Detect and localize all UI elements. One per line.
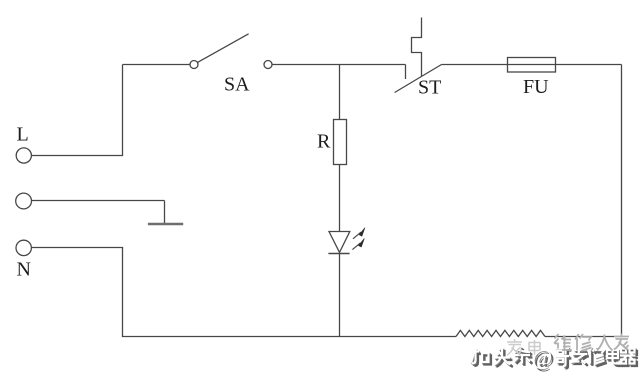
wire L vertical riser: [122, 65, 124, 156]
wire R to LED: [339, 165, 341, 232]
svg-text:N: N: [17, 259, 31, 281]
svg-text:SA: SA: [224, 74, 250, 96]
ground bar: [148, 223, 183, 225]
watermark gray line: [554, 334, 629, 352]
wire earth horizontal: [32, 200, 165, 202]
wire LED to bottom: [339, 254, 341, 337]
terminal N: [16, 240, 31, 255]
watermark dark-shadow layer: [473, 349, 638, 369]
heater element zigzag: [456, 330, 545, 336]
svg-text:ST: ST: [418, 77, 441, 99]
wire earth drop: [164, 201, 166, 224]
LED arrow 2: [352, 239, 364, 250]
svg-text:R: R: [317, 131, 331, 153]
ST blade: [395, 65, 442, 93]
wire ST to fuse: [442, 64, 508, 66]
terminal earth middle: [16, 193, 32, 209]
wire SA to ST: [272, 64, 406, 66]
wire branch top: [339, 65, 341, 120]
svg-text:L: L: [17, 124, 29, 146]
switch SA right contact: [264, 61, 272, 69]
wire bottom left: [122, 336, 456, 338]
LED arrow 1: [353, 228, 365, 239]
watermark white face layer: [471, 347, 636, 367]
wire N vertical: [122, 248, 124, 337]
resistor R body: [334, 120, 347, 165]
switch SA left contact: [190, 61, 198, 69]
watermark mid-shadow layer: [472, 348, 637, 368]
ST bimetal element: [412, 18, 422, 77]
LED cathode bar: [328, 253, 349, 255]
terminal L: [16, 148, 31, 163]
ST left fixed contact: [405, 65, 407, 80]
svg-text:@: @: [532, 345, 552, 370]
svg-text:FU: FU: [523, 76, 549, 98]
wire N horizontal: [31, 247, 123, 249]
fuse FU body: [508, 58, 556, 73]
fuse FU through wire: [508, 64, 556, 66]
wire L horizontal: [31, 155, 123, 157]
wire right vertical: [621, 65, 623, 337]
wire fuse to right corner: [556, 64, 622, 66]
wire top to SA: [123, 64, 191, 66]
LED triangle: [329, 232, 350, 253]
switch SA blade: [198, 34, 249, 63]
wire bottom right: [545, 336, 622, 338]
